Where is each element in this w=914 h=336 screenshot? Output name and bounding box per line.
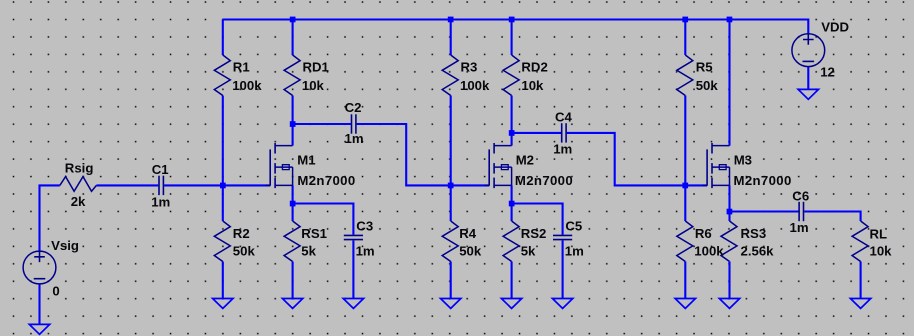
transistor M1 xyxy=(266,143,293,188)
label RD1 xyxy=(303,60,329,75)
label Vsig xyxy=(51,238,79,253)
ground RS2 xyxy=(501,299,521,309)
svg-text:C5: C5 xyxy=(565,218,582,233)
label RL xyxy=(870,227,888,242)
svg-text:10k: 10k xyxy=(870,244,893,259)
label R2 value 50k xyxy=(233,243,256,258)
svg-text:50k: 50k xyxy=(459,243,482,258)
label R1 xyxy=(233,60,250,75)
label RS1 xyxy=(301,226,327,241)
capacitor C1 xyxy=(159,176,163,195)
label R6 value 100k xyxy=(694,243,724,258)
svg-text:1m: 1m xyxy=(345,131,364,146)
resistor RS3 xyxy=(721,221,737,262)
wire source node to C5 xyxy=(512,204,563,235)
svg-text:1m: 1m xyxy=(356,243,375,258)
wire R6 top lead xyxy=(684,185,686,221)
label R2 xyxy=(233,226,250,241)
wire VDD rail xyxy=(223,20,809,34)
capacitor C4 xyxy=(562,123,566,142)
transistor M3 xyxy=(703,143,730,188)
wire RS2 top lead xyxy=(511,204,513,222)
svg-text:100k: 100k xyxy=(694,243,724,258)
wire M1 source lead xyxy=(292,185,294,203)
svg-text:VDD: VDD xyxy=(821,20,849,35)
svg-text:M2n7000: M2n7000 xyxy=(734,173,792,188)
svg-text:R3: R3 xyxy=(461,60,478,75)
label C4 value 1m xyxy=(553,141,572,156)
resistor R3 xyxy=(442,55,458,96)
voltage source Vsig xyxy=(23,251,56,284)
svg-text:2.56k: 2.56k xyxy=(741,243,775,258)
node M1 drain xyxy=(290,121,296,127)
resistor RL xyxy=(852,221,868,262)
label C5 value 1m xyxy=(565,243,584,258)
svg-text:1m: 1m xyxy=(790,220,809,235)
wire C3 to ground xyxy=(352,240,354,298)
svg-text:R6: R6 xyxy=(695,226,712,241)
svg-text:5k: 5k xyxy=(301,243,316,258)
wire RL bottom lead xyxy=(860,262,862,299)
label R5 value 50k xyxy=(696,78,719,93)
ground C3 xyxy=(343,299,363,309)
wire R4 top lead xyxy=(450,185,452,221)
svg-text:100k: 100k xyxy=(460,78,490,93)
node rail-M3 xyxy=(727,17,733,23)
svg-text:5k: 5k xyxy=(521,243,536,258)
node M2 drain xyxy=(509,130,515,136)
svg-text:R4: R4 xyxy=(459,226,477,241)
capacitor C5 xyxy=(553,235,572,239)
svg-text:M1: M1 xyxy=(297,153,315,168)
svg-text:C6: C6 xyxy=(792,189,809,204)
wire R2 top lead xyxy=(222,185,224,221)
svg-text:M2n7000: M2n7000 xyxy=(297,173,355,188)
svg-text:10k: 10k xyxy=(302,78,325,93)
svg-text:10k: 10k xyxy=(521,78,544,93)
voltage source VDD xyxy=(792,34,825,67)
label R5 xyxy=(696,60,713,75)
ground RS3 xyxy=(719,299,739,309)
wire RD1 to M1 drain xyxy=(292,96,294,146)
ground RS1 xyxy=(282,299,302,309)
svg-text:100k: 100k xyxy=(232,78,262,93)
label VDD value 12 xyxy=(820,65,835,80)
transistor M2 xyxy=(485,143,512,188)
label VDD xyxy=(821,20,849,35)
svg-text:12: 12 xyxy=(820,65,835,80)
svg-text:RS2: RS2 xyxy=(521,226,547,241)
ground Vsig xyxy=(29,324,49,334)
wire RD2 to M2 drain xyxy=(511,96,513,146)
resistor RS1 xyxy=(284,221,300,262)
wire R3 bottom lead xyxy=(450,96,452,186)
label M3 model M2n7000 xyxy=(734,173,792,188)
wire C6 to RL xyxy=(804,212,860,222)
label RD1 value 10k xyxy=(302,78,325,93)
resistor R5 xyxy=(677,55,693,96)
label C6 xyxy=(792,189,809,204)
label Rsig value 2k xyxy=(71,194,86,209)
ground R6 xyxy=(675,299,695,309)
svg-text:R5: R5 xyxy=(696,60,713,75)
wire RS1 bottom lead xyxy=(292,262,294,299)
wire R1 top lead xyxy=(222,20,224,56)
label RD2 xyxy=(521,60,547,75)
wire C5 to ground xyxy=(562,240,564,298)
label C4 xyxy=(555,110,573,125)
svg-text:RD2: RD2 xyxy=(521,60,547,75)
label Rsig xyxy=(65,161,94,176)
resistor R2 xyxy=(214,221,230,262)
svg-text:C4: C4 xyxy=(555,110,573,125)
label RL value 10k xyxy=(870,244,893,259)
resistor R1 xyxy=(214,55,230,96)
svg-text:R2: R2 xyxy=(233,226,250,241)
label RS3 xyxy=(741,226,767,241)
svg-text:0: 0 xyxy=(52,283,59,298)
wire C2 to M2 gate xyxy=(357,124,490,185)
svg-text:C2: C2 xyxy=(345,100,362,115)
wire R5 top lead xyxy=(684,20,686,56)
resistor RD1 xyxy=(284,55,300,96)
label R1 value 100k xyxy=(232,78,262,93)
label RS2 xyxy=(521,226,547,241)
svg-text:M2n7000: M2n7000 xyxy=(515,173,573,188)
ground VDD xyxy=(798,89,818,99)
label RS2 value 5k xyxy=(521,243,536,258)
wire RD1 top lead xyxy=(292,20,294,56)
label RS3 value 2.56k xyxy=(741,243,775,258)
label C6 value 1m xyxy=(790,220,809,235)
wire RS3 top lead xyxy=(728,212,730,222)
svg-text:C1: C1 xyxy=(152,162,169,177)
label M3 xyxy=(734,153,752,168)
wire Vsig to ground xyxy=(38,284,40,325)
ground C5 xyxy=(552,299,572,309)
node M3 gate bias xyxy=(682,183,688,189)
node input xyxy=(220,183,226,189)
node rail-R5 xyxy=(682,17,688,23)
label R4 value 50k xyxy=(459,243,482,258)
node rail-RD1 xyxy=(290,17,296,23)
wire source node to C6 xyxy=(730,210,799,212)
svg-text:R1: R1 xyxy=(233,60,250,75)
ground R4 xyxy=(441,299,461,309)
wire R6 bottom lead xyxy=(684,262,686,299)
capacitor C2 xyxy=(352,114,356,133)
label Vsig value 0 xyxy=(52,283,59,298)
wire R5 bottom lead xyxy=(684,96,686,186)
node M1 source xyxy=(290,201,296,207)
node rail-RD2 xyxy=(509,17,515,23)
label C3 xyxy=(356,218,373,233)
label C1 value 1m xyxy=(151,194,170,209)
svg-text:RS3: RS3 xyxy=(741,226,767,241)
wire M3 source lead xyxy=(728,185,730,211)
svg-text:50k: 50k xyxy=(696,78,719,93)
resistor Rsig xyxy=(60,177,97,192)
wire R1 bottom lead xyxy=(222,96,224,186)
label C3 value 1m xyxy=(356,243,375,258)
svg-text:Rsig: Rsig xyxy=(65,161,94,176)
label C5 xyxy=(565,218,582,233)
svg-text:RS1: RS1 xyxy=(301,226,327,241)
svg-text:Vsig: Vsig xyxy=(51,238,79,253)
label M2 model M2n7000 xyxy=(515,173,573,188)
wire RS1 top lead xyxy=(292,204,294,222)
capacitor C6 xyxy=(799,202,803,221)
wire drain node to C2 xyxy=(293,123,351,125)
wire drain node to C4 xyxy=(512,132,561,134)
label C1 xyxy=(152,162,169,177)
label M2 xyxy=(516,153,534,168)
resistor RS2 xyxy=(503,221,519,262)
label C2 value 1m xyxy=(345,131,364,146)
label R3 value 100k xyxy=(460,78,490,93)
wire R2 bottom lead xyxy=(222,262,224,299)
label RS1 value 5k xyxy=(301,243,316,258)
svg-text:50k: 50k xyxy=(233,243,256,258)
svg-text:C3: C3 xyxy=(356,218,373,233)
label R6 xyxy=(695,226,712,241)
label M1 xyxy=(297,153,315,168)
node M2 gate bias xyxy=(448,183,454,189)
wire C1 to M1 gate xyxy=(164,184,270,186)
resistor RD2 xyxy=(503,55,519,96)
wire Vsig to Rsig xyxy=(40,185,60,251)
label C2 xyxy=(345,100,362,115)
label M1 model M2n7000 xyxy=(297,173,355,188)
node M2 source xyxy=(509,201,515,207)
svg-text:RD1: RD1 xyxy=(303,60,329,75)
wire C4 to M3 gate xyxy=(567,133,707,186)
wire Rsig to C1 xyxy=(96,184,158,186)
ground R2 xyxy=(213,299,233,309)
wire VDD to ground xyxy=(807,67,809,90)
svg-text:RL: RL xyxy=(870,227,888,242)
svg-text:1m: 1m xyxy=(151,194,170,209)
wire source node to C3 xyxy=(293,204,354,235)
label R4 xyxy=(459,226,477,241)
wire R4 bottom lead xyxy=(450,262,452,299)
svg-text:M2: M2 xyxy=(516,153,534,168)
resistor R4 xyxy=(442,221,458,262)
node rail-R3 xyxy=(448,17,454,23)
wire M2 source lead xyxy=(511,185,513,203)
svg-text:1m: 1m xyxy=(565,243,584,258)
wire RS3 bottom lead xyxy=(728,262,730,299)
label R3 xyxy=(461,60,478,75)
svg-text:M3: M3 xyxy=(734,153,752,168)
svg-text:1m: 1m xyxy=(553,141,572,156)
wire R3 top lead xyxy=(450,20,452,56)
label RD2 value 10k xyxy=(521,78,544,93)
wire RS2 bottom lead xyxy=(511,262,513,299)
resistor R6 xyxy=(677,221,693,262)
node M3 source xyxy=(727,209,733,215)
ground RL xyxy=(850,299,870,309)
wire M3 drain to rail xyxy=(728,20,730,146)
capacitor C3 xyxy=(344,235,363,239)
svg-text:2k: 2k xyxy=(71,194,86,209)
wire RD2 top lead xyxy=(511,20,513,56)
